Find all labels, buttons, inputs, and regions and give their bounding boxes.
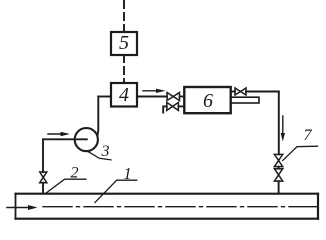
wire valve 7 to pipe xyxy=(278,181,280,193)
valve upper inlet of box 6 xyxy=(167,93,180,101)
node label 7 leader xyxy=(283,146,318,160)
wire between valves xyxy=(278,167,280,169)
wire horizontal into pump center xyxy=(43,138,87,140)
wire valve to box 6 xyxy=(180,96,185,98)
pipe bottom wall xyxy=(16,218,319,220)
box 5 xyxy=(111,32,137,55)
pump circle 3 xyxy=(75,128,98,151)
wire elbow down to pump circle xyxy=(97,97,100,136)
wire right vertical line down xyxy=(278,92,280,155)
pipe left cap xyxy=(15,194,17,219)
flow arrow down xyxy=(282,116,284,136)
box 6 xyxy=(184,87,230,113)
node label 2 leader xyxy=(46,179,87,193)
svg-text:7: 7 xyxy=(304,127,313,144)
flow arrow to box 6 xyxy=(143,90,159,92)
svg-text:6: 6 xyxy=(203,90,213,112)
wire box 6 right to outlet valve xyxy=(231,91,235,93)
svg-text:3: 3 xyxy=(101,143,110,160)
wire box 4 right to valve xyxy=(137,96,167,98)
wire box 4 left to elbow xyxy=(98,96,111,98)
valve V2 xyxy=(40,172,47,183)
wire valve 2 to pipe xyxy=(42,183,44,194)
wire lower valve to box 6 xyxy=(178,105,184,107)
svg-text:1: 1 xyxy=(123,164,132,183)
valve lower drain of box 6 xyxy=(167,102,179,110)
node label 3 leader xyxy=(88,151,112,160)
wire drain stub hook xyxy=(163,106,167,112)
svg-text:5: 5 xyxy=(119,32,129,54)
pipe centerline xyxy=(43,206,322,208)
nozzle stub on box 6 xyxy=(231,97,259,103)
pipe right cap xyxy=(317,194,319,219)
svg-text:4: 4 xyxy=(119,84,129,106)
svg-text:2: 2 xyxy=(71,165,79,182)
valve outlet of box 6 xyxy=(235,88,246,95)
pipe top wall xyxy=(16,193,319,195)
wire outlet valve to right elbow xyxy=(246,91,279,93)
wire dashed impulse line top to box 5 xyxy=(123,1,125,32)
valve V7 lower xyxy=(274,169,282,181)
pipe flow arrow xyxy=(7,207,31,209)
flow arrow toward pump xyxy=(48,133,64,135)
node label 1 leader xyxy=(95,180,137,202)
wire dashed line box 5 to box 4 xyxy=(123,55,125,83)
box 4 xyxy=(111,83,137,107)
valve V7 upper xyxy=(274,154,282,166)
wire elbow down to valve 2 xyxy=(42,139,44,172)
